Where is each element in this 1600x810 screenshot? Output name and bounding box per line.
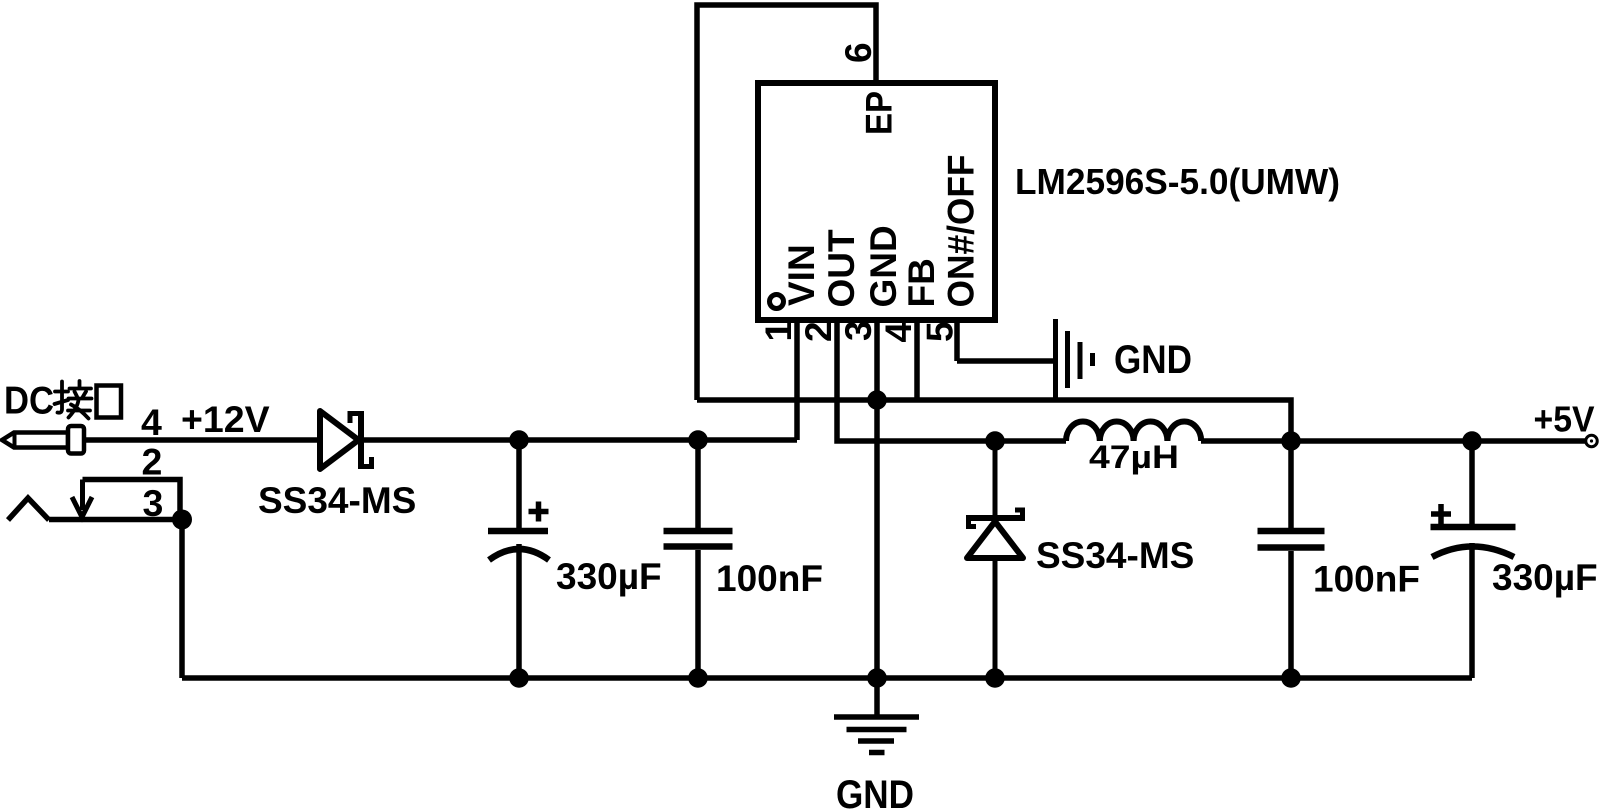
wire jack pin3 to junction (49, 517, 182, 523)
svg-text:4: 4 (878, 322, 919, 343)
diode D1 SS34-MS (320, 411, 372, 469)
node dot EP/GND junction (867, 390, 887, 410)
capacitor C1 330uF stem (516, 440, 522, 678)
diode D2 SS34-MS vertical (966, 441, 1025, 678)
capacitor C3 plates (1258, 531, 1325, 548)
svg-text:ON#/OFF: ON#/OFF (941, 155, 982, 308)
connector jack bracket arrow (72, 480, 92, 518)
svg-text:GND: GND (836, 773, 914, 810)
pin 1 indicator circle (770, 295, 784, 309)
node dot C4 top (1462, 431, 1482, 451)
wire pin2 OUT to switch node (837, 320, 1066, 441)
svg-text:OUT: OUT (821, 229, 862, 308)
capacitor C4 plus (1431, 504, 1451, 524)
svg-text:3: 3 (143, 482, 164, 524)
svg-text:EP: EP (859, 91, 900, 135)
svg-text:LM2596S-5.0(UMW): LM2596S-5.0(UMW) (1015, 161, 1340, 202)
svg-text:SS34-MS: SS34-MS (1036, 535, 1194, 576)
capacitor C2 plates (664, 531, 733, 547)
connector J1 DC jack plug symbol (2, 426, 84, 454)
wire inductor to +5V terminal (1201, 438, 1586, 444)
op-amp U1 LM2596S body (758, 83, 995, 320)
capacitor C4 plates (1431, 527, 1516, 557)
svg-text:2: 2 (142, 441, 163, 483)
svg-text:100nF: 100nF (716, 558, 823, 599)
wire pin5 ON/OFF to ground symbol (957, 320, 1053, 361)
node dot C2 top (688, 430, 708, 450)
capacitor C2 100nF stem (695, 440, 701, 678)
capacitor C3 100nF stem (1288, 441, 1294, 678)
ground symbol bottom (834, 678, 919, 753)
svg-text:3: 3 (838, 320, 879, 341)
terminal +5V circle (1586, 435, 1598, 447)
wire diode to VIN pin (364, 437, 797, 443)
node dot switch node (985, 431, 1005, 451)
wire jack junction down to ground rail (179, 520, 185, 679)
node dot C3 top (1281, 431, 1301, 451)
node dot rail C2 (688, 668, 708, 688)
wire pin3 GND down to ground rail (874, 320, 880, 678)
svg-text:330µF: 330µF (556, 556, 662, 597)
svg-text:1: 1 (758, 321, 799, 342)
svg-text:6: 6 (838, 42, 879, 63)
svg-text:VIN: VIN (781, 244, 822, 306)
svg-text:330µF: 330µF (1492, 557, 1598, 598)
svg-text:+12V: +12V (181, 398, 270, 440)
wire ground rail (182, 675, 1472, 681)
connector jack pin2-3 bracket (83, 480, 181, 519)
wire FB/EP horizontal to output node (697, 400, 1291, 441)
svg-text:100nF: 100nF (1313, 559, 1420, 600)
svg-text:5: 5 (920, 321, 961, 342)
node dot C1 top (509, 430, 529, 450)
connector jack switch chevron (8, 498, 49, 520)
svg-text:47µH: 47µH (1089, 439, 1179, 475)
svg-text:FB: FB (901, 258, 942, 307)
svg-text:2: 2 (798, 321, 839, 342)
node dot rail C1 (509, 668, 529, 688)
capacitor C4 330uF stem (1469, 441, 1475, 678)
svg-text:SS34-MS: SS34-MS (258, 480, 416, 521)
svg-text:DC: DC (4, 380, 54, 423)
svg-text:GND: GND (863, 225, 904, 307)
ground symbol right (IEC bars) (1056, 319, 1093, 398)
node dot rail C3 (1281, 668, 1301, 688)
svg-text:4: 4 (141, 401, 162, 443)
svg-text:+5V: +5V (1534, 399, 1596, 440)
node dot jack junction (172, 510, 192, 530)
wire pin4 FB stub (914, 320, 920, 400)
label DC接口 (4, 380, 121, 423)
svg-text:GND: GND (1114, 338, 1192, 382)
capacitor C1 plus (529, 502, 549, 522)
node dot rail D2 (985, 668, 1005, 688)
capacitor C1 plates (488, 531, 549, 560)
inductor L1 47uH (1066, 422, 1201, 442)
wire pin1 VIN stub (794, 320, 800, 440)
wire +12V from jack to diode (84, 437, 317, 443)
wire EP loop pin6 (697, 5, 876, 400)
node dot rail pin3 (867, 668, 887, 688)
